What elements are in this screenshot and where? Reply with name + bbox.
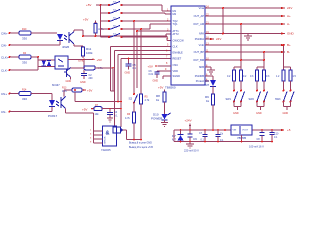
svg-text:+5V: +5V [97, 58, 102, 62]
svg-text:PC817: PC817 [48, 114, 58, 118]
svg-text:VIN: VIN [233, 129, 237, 131]
svg-text:4N26: 4N26 [62, 45, 70, 49]
svg-text:B-: B- [287, 50, 290, 54]
svg-text:NFA: NFA [199, 32, 204, 36]
svg-text:PGNDA: PGNDA [195, 37, 204, 41]
svg-text:24V: 24V [287, 6, 292, 10]
svg-text:GND: GND [80, 81, 86, 84]
svg-text:CLK+: CLK+ [1, 56, 9, 60]
svg-text:24V: 24V [216, 37, 221, 41]
svg-text:ATT2: ATT2 [173, 32, 180, 36]
svg-text:1k: 1k [206, 99, 210, 103]
svg-text:+24V: +24V [185, 119, 192, 123]
svg-text:M2: M2 [173, 12, 177, 16]
svg-text:4.7k: 4.7k [125, 117, 130, 120]
svg-text:+5: +5 [287, 128, 291, 132]
svg-text:Вывод 16 к цепи +5 В: Вывод 16 к цепи +5 В [129, 146, 153, 149]
svg-text:OUT_AM: OUT_AM [193, 22, 204, 26]
svg-text:VDD: VDD [173, 69, 179, 73]
svg-text:NFB: NFB [199, 65, 204, 69]
svg-text:1k: 1k [156, 98, 160, 102]
svg-text:GND: GND [233, 112, 239, 115]
svg-text:A+: A+ [287, 14, 291, 18]
svg-text:200: 200 [89, 77, 94, 80]
svg-text:CLK-: CLK- [1, 69, 8, 73]
svg-text:74HC05: 74HC05 [101, 148, 111, 152]
svg-text:+5V: +5V [82, 107, 87, 111]
svg-text:330: 330 [22, 97, 27, 101]
svg-text:CN+: CN+ [1, 92, 7, 96]
svg-text:M7: M7 [205, 83, 209, 87]
svg-text:OSC: OSC [173, 63, 179, 67]
svg-text:330: 330 [22, 37, 27, 41]
svg-text:VOUT: VOUT [242, 129, 249, 131]
svg-text:Vmb: Vmb [199, 43, 205, 47]
svg-text:6N137: 6N137 [52, 83, 60, 87]
svg-text:4.7k: 4.7k [145, 99, 150, 102]
svg-text:CW-: CW- [1, 44, 7, 48]
svg-text:GND: GND [283, 112, 289, 115]
svg-text:R14: R14 [22, 89, 27, 92]
svg-text:CN-: CN- [1, 110, 6, 114]
svg-text:Vma: Vma [199, 6, 205, 10]
svg-text:PGNDB: PGNDB [195, 74, 204, 78]
svg-text:SGND: SGND [173, 74, 181, 78]
svg-text:GND: GND [66, 80, 72, 83]
svg-text:CLK: CLK [173, 45, 178, 49]
svg-text:GND: GND [256, 112, 262, 115]
svg-text:Protect: Protect [196, 79, 204, 83]
svg-text:OUT_BM: OUT_BM [193, 58, 204, 62]
svg-text:POWER: POWER [151, 116, 163, 120]
svg-text:100k: 100k [86, 51, 93, 55]
svg-text:330: 330 [22, 61, 27, 65]
svg-text:Вывод 8 к цепи GND: Вывод 8 к цепи GND [129, 142, 152, 145]
svg-text:+5V: +5V [86, 3, 91, 7]
svg-text:S2: S2 [129, 97, 133, 101]
svg-text:B+: B+ [287, 43, 291, 47]
svg-text:&: & [106, 131, 110, 137]
svg-text:ENABLE: ENABLE [173, 51, 184, 55]
svg-text:+5V: +5V [158, 86, 163, 90]
svg-text:GND: GND [287, 32, 295, 36]
svg-text:C9: C9 [193, 137, 197, 141]
svg-text:+5V: +5V [87, 89, 92, 93]
svg-text:OUT_BP: OUT_BP [194, 50, 205, 54]
svg-text:+5V: +5V [148, 64, 153, 68]
svg-text:+5V: +5V [83, 17, 88, 21]
svg-text:RESET: RESET [173, 57, 182, 61]
svg-text:GND: GND [153, 80, 159, 83]
svg-text:220 mA 50 V: 220 mA 50 V [184, 149, 199, 153]
svg-text:CW+: CW+ [1, 32, 8, 36]
svg-text:OUT_AP: OUT_AP [194, 14, 205, 18]
svg-text:0.1: 0.1 [114, 115, 118, 118]
svg-text:R10: R10 [22, 28, 27, 31]
svg-text:SW3: SW3 [275, 98, 281, 101]
svg-text:CW/CCW: CW/CCW [173, 39, 185, 43]
svg-text:SW2: SW2 [249, 98, 255, 101]
svg-text:TB6560: TB6560 [165, 86, 176, 90]
svg-text:GND: GND [125, 72, 131, 75]
svg-text:74HC05: 74HC05 [104, 136, 106, 145]
svg-text:100 mA 16 V: 100 mA 16 V [249, 145, 264, 149]
svg-text:0.01: 0.01 [149, 73, 154, 76]
svg-text:SW1: SW1 [226, 98, 232, 101]
svg-text:A-: A- [287, 22, 290, 26]
svg-text:4.7k: 4.7k [62, 90, 67, 93]
svg-text:TQ1: TQ1 [173, 22, 179, 26]
